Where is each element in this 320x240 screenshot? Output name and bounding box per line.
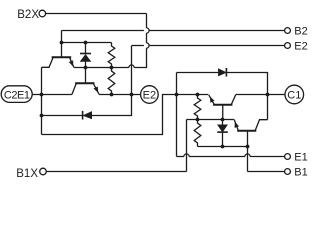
svg-text:C1: C1	[287, 89, 301, 101]
svg-text:E2: E2	[294, 41, 307, 53]
svg-text:B2: B2	[294, 26, 307, 38]
svg-text:B1X: B1X	[16, 168, 38, 180]
svg-text:B2X: B2X	[17, 9, 39, 21]
svg-text:E2: E2	[143, 89, 156, 101]
svg-text:C2E1: C2E1	[4, 89, 30, 101]
svg-text:E1: E1	[294, 152, 307, 164]
svg-text:B1: B1	[294, 167, 307, 179]
